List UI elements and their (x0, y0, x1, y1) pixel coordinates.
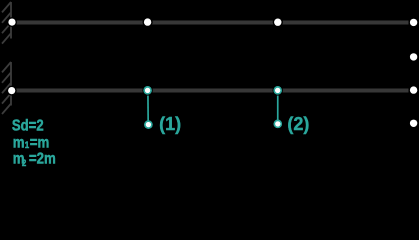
node D2 (bottom beam free end) (409, 85, 419, 95)
wire: link from node (2) on beam 2 down to mass 2 (277, 90, 279, 124)
node D1 (top beam free end) (409, 17, 419, 27)
mass m2 marker, node (2) (274, 120, 283, 128)
svg-text:m1=m: m1=m (13, 134, 50, 151)
beam 2 (bottom) (11, 89, 409, 93)
node C1 (top beam, x=277) (273, 17, 283, 27)
fixed support wall (bottom beam) (2, 62, 11, 114)
node 1 attachment on beam 2 (142, 85, 152, 95)
fixed support wall (top beam) (2, 2, 11, 44)
svg-text:(1): (1) (159, 114, 181, 134)
wire: link from node (1) on beam 2 down to mass 1 (147, 90, 149, 124)
beam 1 (top) (11, 21, 409, 25)
node B1 (top beam, x=147) (143, 17, 153, 27)
node A2 (wall pin, bottom beam) (7, 86, 17, 96)
svg-text:(2): (2) (287, 114, 309, 134)
mass m1 marker, node (1) (144, 120, 153, 129)
node A1 (wall pin, top beam) (7, 17, 17, 27)
svg-text:m2=2m: m2=2m (13, 151, 56, 168)
node 2 attachment on beam 2 (273, 85, 283, 95)
floating node right, between beams (410, 53, 417, 60)
svg-text:Sd=2: Sd=2 (12, 117, 44, 134)
floating node bottom right (410, 120, 417, 127)
